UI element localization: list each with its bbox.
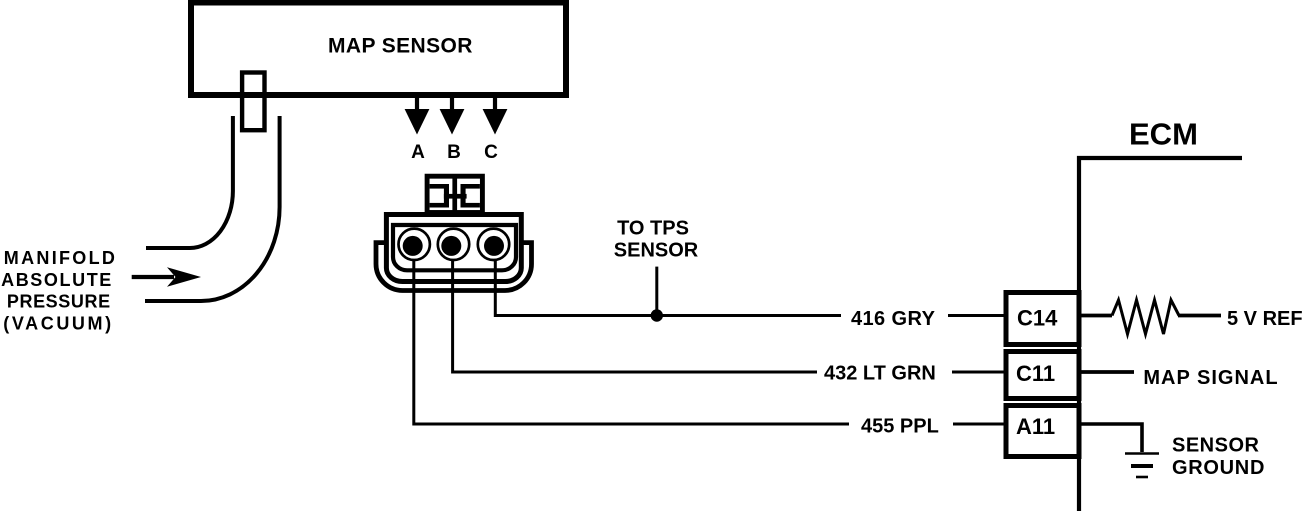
svg-text:MANIFOLD: MANIFOLD — [4, 248, 117, 268]
connector latch — [427, 176, 482, 213]
ECM terminal A11 — [1006, 406, 1079, 457]
pin A arrow — [415, 92, 419, 110]
junction node — [651, 309, 663, 321]
svg-text:GROUND: GROUND — [1172, 457, 1265, 479]
wire resistor to 5V REF — [1178, 314, 1221, 318]
connector body outer shell — [386, 215, 521, 282]
connector body inner shell — [393, 225, 516, 270]
resistor R1 — [1112, 300, 1179, 334]
svg-text:B: B — [447, 142, 461, 163]
svg-text:416 GRY: 416 GRY — [851, 308, 936, 330]
pin B arrow — [450, 92, 454, 110]
ECM terminal C11 — [1006, 352, 1079, 399]
svg-text:ABSOLUTE: ABSOLUTE — [1, 270, 113, 290]
svg-text:455 PPL: 455 PPL — [861, 416, 939, 438]
wire from pin C — [495, 244, 841, 316]
wire from pin B — [453, 244, 817, 372]
svg-text:MAP SIGNAL: MAP SIGNAL — [1143, 367, 1278, 389]
svg-text:C: C — [484, 142, 498, 163]
ECM boundary line — [1079, 158, 1242, 511]
wire C14 to resistor — [1081, 314, 1112, 318]
svg-text:SENSOR: SENSOR — [1172, 435, 1260, 457]
wire A11 to ground — [1081, 424, 1142, 452]
svg-text:C11: C11 — [1016, 361, 1055, 386]
svg-text:SENSOR: SENSOR — [614, 239, 699, 261]
ECM terminal C14 — [1006, 293, 1079, 345]
connector pin C socket — [478, 229, 509, 260]
MAP sensor box — [191, 3, 566, 96]
svg-text:C14: C14 — [1017, 306, 1058, 331]
svg-text:A11: A11 — [1016, 414, 1055, 439]
vacuum flow arrow — [132, 275, 174, 279]
vacuum tube outer wall — [145, 116, 280, 301]
ground symbol — [1125, 452, 1159, 455]
svg-text:ECM: ECM — [1129, 117, 1198, 152]
connector wings / outer flange — [376, 243, 532, 291]
vacuum port fitting — [242, 73, 264, 131]
wire from pin A — [414, 244, 849, 424]
svg-text:432 LT GRN: 432 LT GRN — [824, 363, 936, 385]
svg-text:5 V REF: 5 V REF — [1227, 308, 1303, 330]
wire into C14 — [948, 314, 1006, 317]
connector pin B socket — [438, 229, 469, 260]
svg-text:MAP SENSOR: MAP SENSOR — [328, 35, 473, 58]
pin C arrow — [493, 92, 497, 110]
svg-text:A: A — [411, 142, 425, 163]
vacuum tube inner wall — [146, 116, 233, 248]
svg-text:PRESSURE: PRESSURE — [7, 291, 111, 311]
connector pin A socket — [399, 229, 430, 260]
svg-text:(VACUUM): (VACUUM) — [3, 314, 113, 334]
TPS tap wire — [655, 267, 658, 316]
wire C11 stub — [1081, 370, 1134, 374]
wire into A11 — [953, 423, 1006, 426]
svg-text:TO TPS: TO TPS — [617, 218, 689, 240]
wire into C11 — [952, 371, 1006, 374]
